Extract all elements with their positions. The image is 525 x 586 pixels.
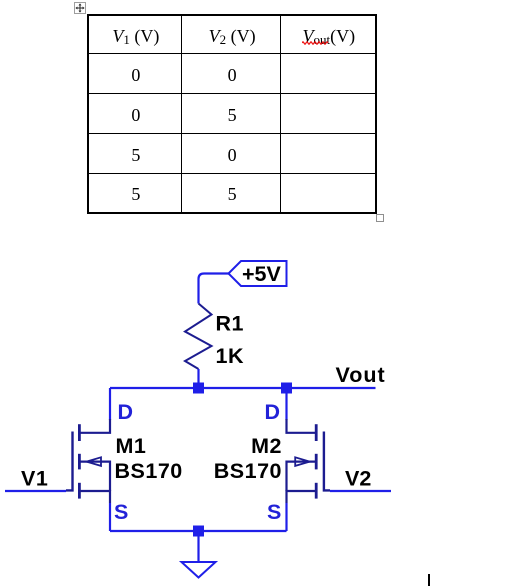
svg-text:M1: M1: [116, 434, 147, 458]
svg-text:R1: R1: [216, 312, 244, 336]
svg-text:S: S: [267, 500, 281, 524]
ground: [182, 562, 216, 578]
svg-text:V2: V2: [345, 467, 371, 491]
wire M2 source drop: [285, 503, 287, 531]
svg-text:S: S: [114, 500, 128, 524]
wire V1 gate lead: [5, 490, 66, 492]
transistor M2: [287, 419, 331, 503]
svg-text:BS170: BS170: [115, 459, 183, 483]
power flag +5V: [229, 261, 287, 286]
table move handle: [74, 2, 86, 14]
svg-text:D: D: [118, 400, 134, 424]
transistor M1: [66, 419, 110, 503]
svg-text:Vout: Vout: [336, 363, 386, 387]
wire M2 drain drop: [285, 388, 287, 420]
svg-text:M2: M2: [251, 434, 282, 458]
wire V2 gate lead: [330, 490, 391, 492]
text caret: [428, 574, 430, 586]
top rail wire (drains to Vout): [110, 387, 376, 389]
table resize handle: [376, 214, 384, 222]
junction on bottom rail: [193, 526, 204, 537]
wire resistor to top rail: [197, 369, 199, 388]
svg-text:BS170: BS170: [214, 459, 282, 483]
bottom rail wire (sources): [110, 530, 287, 532]
truth table: [87, 14, 377, 214]
wire from +5V flag to resistor R1: [199, 274, 229, 304]
resistor R1: [185, 304, 212, 370]
junction below resistor: [193, 383, 204, 394]
spellcheck squiggle under Vout: [302, 40, 330, 46]
wire M1 drain drop: [109, 388, 111, 420]
junction at M2 drain: [281, 383, 292, 394]
svg-text:1K: 1K: [216, 344, 244, 368]
wire M1 source drop: [109, 503, 111, 531]
svg-text:V1: V1: [21, 467, 48, 491]
wire to ground: [197, 531, 199, 562]
svg-text:+5V: +5V: [242, 262, 282, 286]
svg-text:D: D: [264, 400, 280, 424]
